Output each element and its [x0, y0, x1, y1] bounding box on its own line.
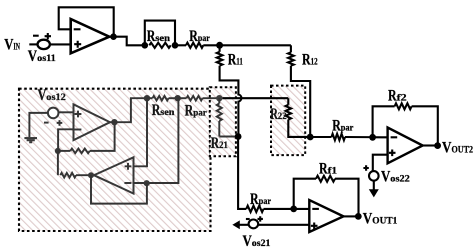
wire Rsen bypass loop: [145, 21, 175, 46]
svg-text:Rpar: Rpar: [250, 191, 271, 208]
voltage source Vos11: [33, 33, 51, 49]
resistor R12: [290, 45, 292, 52]
svg-text:Rf2: Rf2: [388, 88, 407, 105]
node Rsen right: [172, 42, 179, 49]
wire U1 output down to row: [109, 37, 145, 46]
wire Vos12 to ground: [29, 113, 48, 137]
node J inverting input U5: [369, 134, 376, 141]
node U3 output: [88, 172, 94, 178]
node Rsen left: [142, 42, 149, 49]
wire node B down to Rpar out1: [238, 137, 246, 209]
svg-text:R12: R12: [302, 51, 318, 68]
wire Vos22 bottom with arrow: [373, 181, 375, 191]
wire U3 + input up to node E: [134, 98, 148, 166]
op-amp U3: [94, 157, 134, 193]
wire U1 feedback loop: [59, 7, 114, 36]
wire VIN to Vos11: [29, 43, 37, 45]
node B summing out1: [235, 133, 242, 140]
wire Vos21 left with arrow: [239, 224, 249, 226]
node H R21 top: [216, 95, 222, 101]
resistor R22: [287, 98, 289, 105]
resistor U3 output: [60, 173, 76, 178]
wire U4 + input: [258, 224, 309, 226]
ground: [24, 138, 37, 142]
resistor Rpar top: [175, 44, 186, 46]
node VOUT2: [423, 144, 438, 146]
wire R21 bottom to node B: [219, 136, 238, 138]
wire node D down to U3 resistor: [57, 151, 59, 175]
node VOUT1: [344, 215, 359, 217]
op-amp U4 output1: [309, 200, 343, 232]
svg-text:VIN: VIN: [4, 36, 20, 53]
svg-text:R11: R11: [228, 51, 243, 68]
node E: [144, 95, 150, 101]
node F: [175, 95, 181, 101]
resistor Rpar out2: [310, 136, 331, 138]
wire R11 bottom to node B with hop: [220, 66, 242, 137]
svg-text:Rpar: Rpar: [332, 118, 353, 135]
node I inverting input U4: [290, 206, 297, 213]
wire U3 output loop: [91, 175, 147, 203]
resistor U2 feedback: [58, 150, 70, 152]
wire U2 output up to sense rail: [110, 98, 147, 122]
secondary block dashed box: [19, 89, 211, 231]
op-amp U1: [71, 19, 110, 53]
node C summing out2: [307, 134, 314, 141]
node G: [144, 180, 150, 186]
wire sense rail to R22: [223, 97, 289, 99]
resistor Rf1: [294, 179, 316, 209]
resistor R21 dashed box: [210, 87, 236, 156]
voltage source Vos12: [44, 108, 62, 126]
svg-text:Vos11: Vos11: [28, 48, 56, 65]
wire Vos12 to U2 +: [59, 111, 74, 113]
wire R12 bottom to node C: [291, 66, 310, 137]
op-amp U5 output2: [388, 128, 423, 164]
resistor R21: [218, 98, 220, 103]
wire top rail to R12: [220, 44, 291, 46]
voltage source Vos21: [246, 216, 263, 228]
node U2 output: [111, 119, 117, 125]
resistor Rpar out1: [246, 206, 263, 212]
resistor Rsen top: [149, 43, 170, 48]
node D: [55, 148, 61, 154]
svg-text:Vos21: Vos21: [243, 233, 271, 250]
wire U5 + input to Vos22: [373, 155, 388, 172]
svg-text:Rsen: Rsen: [147, 28, 170, 45]
resistor R11: [219, 45, 221, 52]
resistor Rsen secondary: [147, 97, 153, 99]
resistor Rf2: [373, 106, 395, 137]
node U1 output: [110, 33, 117, 40]
resistor Rpar secondary: [178, 97, 187, 99]
svg-text:VOUT2: VOUT2: [442, 140, 473, 157]
op-amp U2: [74, 104, 111, 140]
svg-text:Rf1: Rf1: [319, 161, 338, 178]
wire U3 - input rail to node F: [134, 98, 179, 183]
wire U2 - feedback to node D: [58, 129, 73, 151]
node A top rail: [216, 42, 223, 49]
wire Vos11 to U1 +: [50, 43, 71, 45]
voltage source Vos22: [363, 165, 378, 180]
svg-text:Rpar: Rpar: [189, 28, 210, 45]
resistor R22 dashed box: [271, 86, 305, 156]
svg-text:Vos22: Vos22: [381, 169, 410, 186]
svg-text:VOUT1: VOUT1: [363, 210, 398, 227]
